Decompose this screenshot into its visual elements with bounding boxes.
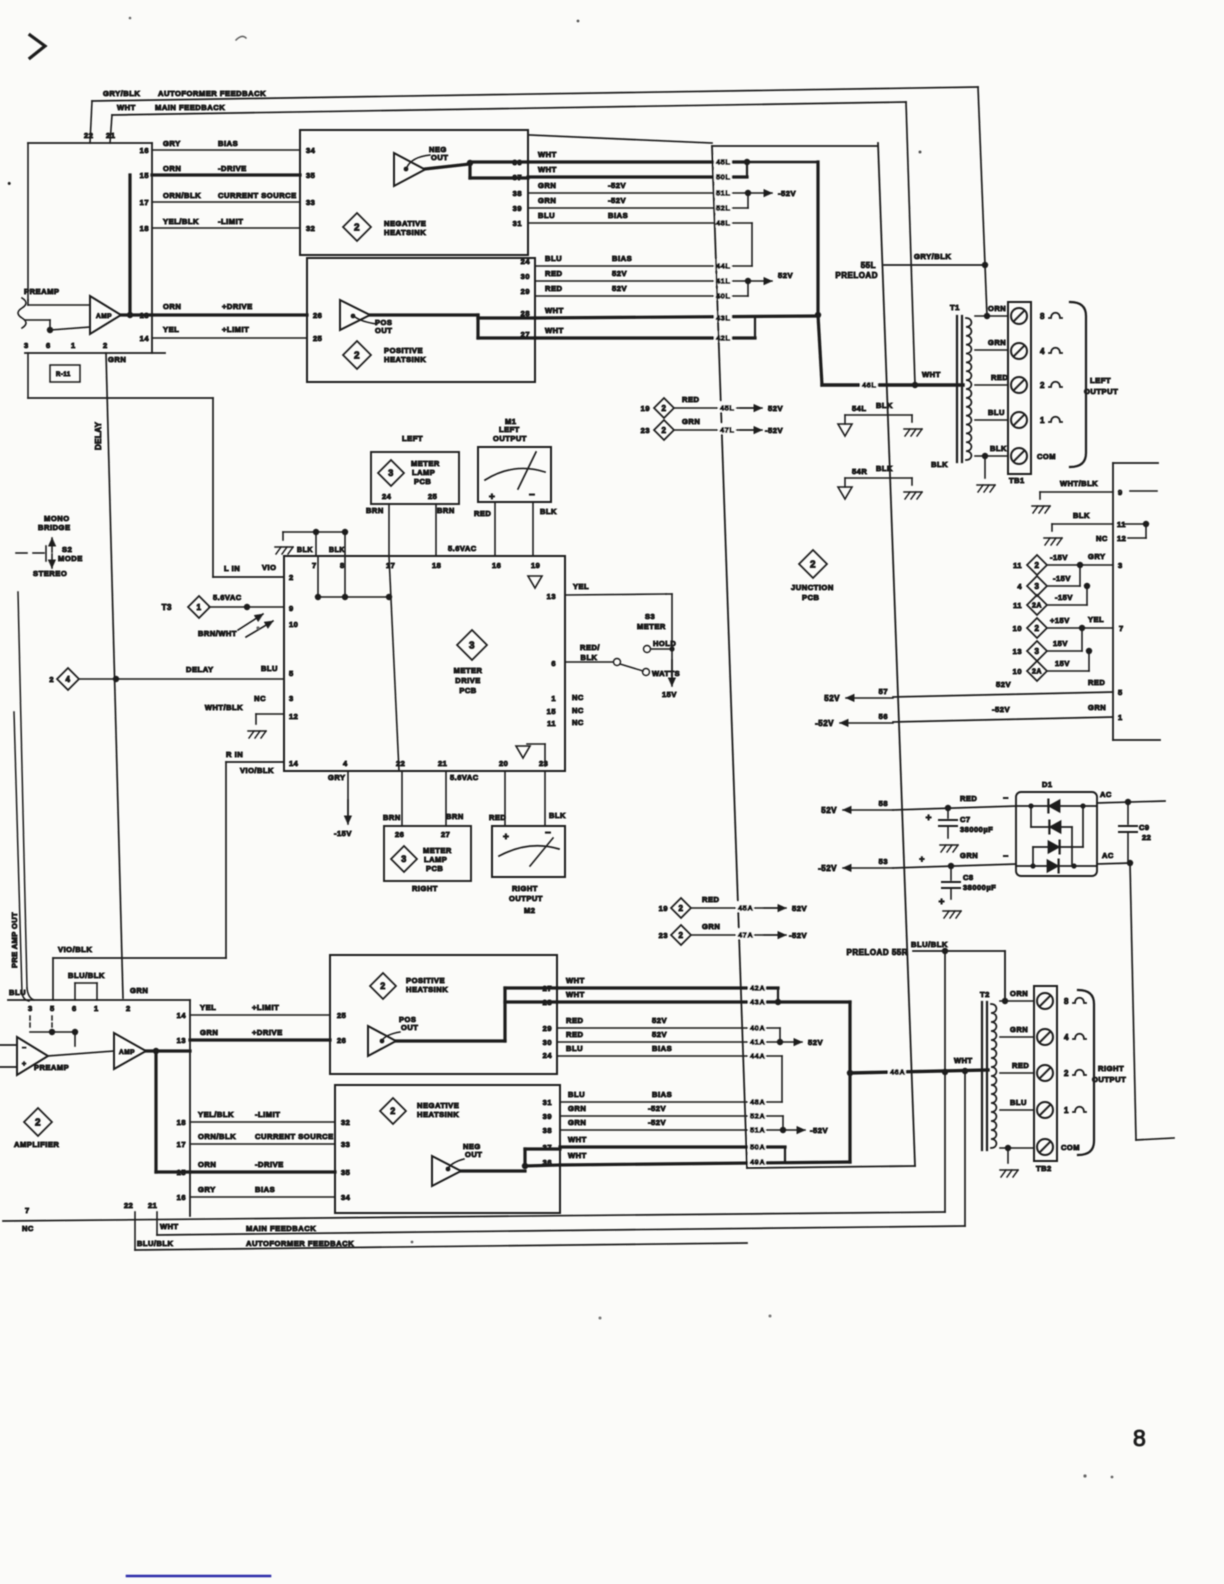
svg-text:5: 5 bbox=[50, 1004, 55, 1013]
svg-text:2: 2 bbox=[49, 675, 54, 684]
svg-text:7: 7 bbox=[25, 1206, 30, 1215]
svg-text:2: 2 bbox=[1035, 624, 1040, 633]
svg-text:BIAS: BIAS bbox=[608, 211, 628, 220]
svg-text:10: 10 bbox=[1013, 667, 1022, 676]
svg-text:52V: 52V bbox=[612, 284, 627, 293]
svg-text:19: 19 bbox=[659, 904, 668, 913]
svg-text:26: 26 bbox=[337, 1036, 346, 1045]
svg-text:ORN: ORN bbox=[198, 1160, 216, 1169]
svg-text:YEL: YEL bbox=[163, 325, 179, 334]
svg-text:MONO: MONO bbox=[44, 514, 70, 523]
svg-text:GRN: GRN bbox=[682, 417, 700, 426]
svg-text:LAMP: LAMP bbox=[412, 468, 435, 477]
svg-text:14: 14 bbox=[177, 1011, 187, 1020]
svg-text:36: 36 bbox=[543, 1158, 552, 1167]
svg-text:22: 22 bbox=[84, 131, 93, 140]
svg-text:BIAS: BIAS bbox=[652, 1044, 672, 1053]
svg-text:BRN: BRN bbox=[446, 812, 464, 821]
svg-text:BLK: BLK bbox=[540, 507, 557, 516]
svg-text:OUT: OUT bbox=[465, 1150, 482, 1159]
svg-text:2A: 2A bbox=[1032, 603, 1042, 610]
svg-text:CURRENT SOURCE: CURRENT SOURCE bbox=[255, 1132, 334, 1141]
svg-text:WHT: WHT bbox=[922, 370, 941, 379]
svg-text:38: 38 bbox=[513, 189, 522, 198]
svg-text:50L: 50L bbox=[716, 172, 730, 181]
svg-text:2: 2 bbox=[1040, 381, 1045, 390]
svg-text:2: 2 bbox=[289, 573, 294, 582]
svg-text:2: 2 bbox=[1035, 561, 1040, 570]
svg-text:+: + bbox=[939, 897, 945, 908]
svg-text:4: 4 bbox=[1064, 1033, 1069, 1042]
svg-text:NC: NC bbox=[572, 706, 584, 715]
svg-text:26: 26 bbox=[395, 830, 404, 839]
svg-text:RIGHT: RIGHT bbox=[1098, 1064, 1124, 1073]
svg-text:GRN: GRN bbox=[130, 986, 148, 995]
svg-text:RED: RED bbox=[682, 395, 700, 404]
svg-text:AUTOFORMER FEEDBACK: AUTOFORMER FEEDBACK bbox=[158, 89, 266, 98]
svg-text:NC: NC bbox=[22, 1224, 34, 1233]
svg-text:T2: T2 bbox=[980, 990, 990, 999]
svg-text:BLU: BLU bbox=[566, 1044, 583, 1053]
svg-text:RIGHT: RIGHT bbox=[412, 884, 438, 893]
svg-text:-52V: -52V bbox=[778, 189, 796, 198]
svg-text:58: 58 bbox=[879, 799, 888, 808]
svg-text:27: 27 bbox=[543, 984, 552, 993]
svg-text:L IN: L IN bbox=[224, 564, 240, 573]
svg-text:4: 4 bbox=[1040, 347, 1045, 356]
svg-text:•: • bbox=[8, 181, 11, 188]
svg-text:BLK: BLK bbox=[876, 464, 893, 473]
svg-text:6: 6 bbox=[46, 341, 51, 350]
svg-text:RED: RED bbox=[474, 509, 491, 518]
svg-text:4: 4 bbox=[1017, 582, 1022, 591]
svg-text:19: 19 bbox=[641, 404, 650, 413]
svg-text:WHT: WHT bbox=[566, 976, 585, 985]
svg-text:5: 5 bbox=[1118, 688, 1123, 697]
svg-text:52V: 52V bbox=[792, 904, 807, 913]
svg-text:BLK: BLK bbox=[931, 460, 948, 469]
svg-text:+15V: +15V bbox=[1050, 616, 1070, 625]
svg-text:GRN: GRN bbox=[702, 922, 720, 931]
svg-text:GRN: GRN bbox=[538, 196, 556, 205]
svg-text:15V: 15V bbox=[1053, 639, 1068, 648]
svg-text:AMPLIFIER: AMPLIFIER bbox=[14, 1140, 59, 1149]
svg-text:OUT: OUT bbox=[431, 153, 448, 162]
svg-text:STEREO: STEREO bbox=[33, 569, 67, 578]
svg-text:32: 32 bbox=[306, 224, 315, 233]
svg-text:HEATSINK: HEATSINK bbox=[384, 228, 426, 237]
svg-text:18: 18 bbox=[432, 561, 441, 570]
svg-text:PCB: PCB bbox=[426, 864, 443, 873]
svg-text:52L: 52L bbox=[716, 203, 730, 212]
svg-text:16: 16 bbox=[177, 1193, 186, 1202]
svg-text:2: 2 bbox=[380, 981, 386, 991]
svg-text:1: 1 bbox=[1118, 713, 1123, 722]
svg-text:T3: T3 bbox=[162, 603, 172, 612]
svg-text:4: 4 bbox=[343, 759, 348, 768]
svg-text:METER: METER bbox=[454, 666, 483, 675]
svg-text:34: 34 bbox=[306, 146, 316, 155]
svg-text:OUT: OUT bbox=[375, 326, 392, 335]
svg-text:50A: 50A bbox=[750, 1142, 765, 1151]
svg-text:35: 35 bbox=[306, 171, 315, 180]
svg-text:RED: RED bbox=[960, 794, 977, 803]
svg-text:1: 1 bbox=[1064, 1106, 1069, 1115]
svg-text:WHT: WHT bbox=[954, 1056, 973, 1065]
svg-text:25: 25 bbox=[313, 334, 322, 343]
svg-text:GRN: GRN bbox=[960, 851, 978, 860]
svg-text:51A: 51A bbox=[750, 1125, 765, 1134]
svg-text:NC: NC bbox=[1096, 534, 1108, 543]
svg-text:BLK: BLK bbox=[581, 653, 598, 662]
svg-text:4: 4 bbox=[66, 675, 71, 684]
svg-text:52V: 52V bbox=[612, 269, 627, 278]
svg-text:5.6VAC: 5.6VAC bbox=[450, 773, 479, 782]
svg-text:VIO/BLK: VIO/BLK bbox=[240, 766, 274, 775]
svg-text:3: 3 bbox=[24, 341, 29, 350]
svg-text:2: 2 bbox=[679, 904, 684, 913]
svg-text:BLU: BLU bbox=[1010, 1098, 1027, 1107]
svg-text:52V: 52V bbox=[821, 806, 837, 815]
svg-text:52A: 52A bbox=[750, 1111, 765, 1120]
svg-text:36: 36 bbox=[513, 158, 522, 167]
svg-text:37: 37 bbox=[543, 1143, 552, 1152]
svg-text:+DRIVE: +DRIVE bbox=[252, 1028, 283, 1037]
svg-text:2: 2 bbox=[810, 560, 816, 571]
svg-text:7: 7 bbox=[312, 561, 317, 570]
svg-text:+: + bbox=[22, 1061, 27, 1068]
svg-text:BLU/BLK: BLU/BLK bbox=[911, 940, 948, 949]
svg-text:14: 14 bbox=[289, 759, 299, 768]
svg-text:57: 57 bbox=[879, 687, 888, 696]
svg-text:51L: 51L bbox=[716, 188, 730, 197]
svg-text:AMP: AMP bbox=[119, 1049, 135, 1056]
svg-text:32: 32 bbox=[341, 1118, 350, 1127]
svg-text:3: 3 bbox=[401, 854, 407, 864]
svg-text:45L: 45L bbox=[716, 157, 730, 166]
svg-text:8: 8 bbox=[340, 561, 345, 570]
svg-text:PREAMP: PREAMP bbox=[34, 1063, 69, 1072]
svg-text:40L: 40L bbox=[716, 291, 730, 300]
svg-text:2: 2 bbox=[662, 404, 667, 413]
svg-text:45L: 45L bbox=[720, 403, 734, 412]
svg-text:RED: RED bbox=[1088, 678, 1105, 687]
svg-text:RED: RED bbox=[702, 895, 720, 904]
svg-text:23: 23 bbox=[539, 759, 548, 768]
svg-text:RED: RED bbox=[566, 1016, 584, 1025]
svg-text:19: 19 bbox=[531, 561, 540, 570]
svg-text:39: 39 bbox=[513, 204, 522, 213]
svg-text:52V: 52V bbox=[652, 1016, 667, 1025]
svg-text:-52V: -52V bbox=[648, 1104, 666, 1113]
svg-text:PRELOAD 55R: PRELOAD 55R bbox=[846, 948, 908, 957]
svg-text:-15V: -15V bbox=[1055, 593, 1073, 602]
svg-text:POSITIVE: POSITIVE bbox=[384, 346, 423, 355]
svg-text:29: 29 bbox=[543, 1024, 552, 1033]
svg-text:BLU: BLU bbox=[545, 254, 562, 263]
svg-text:WHT: WHT bbox=[568, 1135, 587, 1144]
svg-text:GRY: GRY bbox=[1088, 552, 1105, 561]
svg-text:8: 8 bbox=[1064, 997, 1069, 1006]
svg-text:RED: RED bbox=[991, 373, 1008, 382]
svg-text:HEATSINK: HEATSINK bbox=[406, 985, 448, 994]
svg-text:10: 10 bbox=[289, 620, 298, 629]
svg-text:17: 17 bbox=[386, 561, 395, 570]
svg-text:5.6VAC: 5.6VAC bbox=[213, 593, 242, 602]
svg-text:RED: RED bbox=[566, 1030, 584, 1039]
svg-text:-52V: -52V bbox=[992, 705, 1010, 714]
svg-text:3: 3 bbox=[289, 694, 294, 703]
svg-text:3: 3 bbox=[388, 468, 394, 478]
svg-text:1: 1 bbox=[1040, 416, 1045, 425]
svg-text:C9: C9 bbox=[1139, 823, 1150, 832]
svg-text:-LIMIT: -LIMIT bbox=[218, 217, 243, 226]
svg-text:26: 26 bbox=[313, 311, 322, 320]
svg-text:40A: 40A bbox=[750, 1023, 765, 1032]
svg-text:27: 27 bbox=[521, 330, 530, 339]
svg-text:2: 2 bbox=[35, 1118, 41, 1129]
svg-text:22: 22 bbox=[124, 1201, 133, 1210]
svg-text:GRN: GRN bbox=[988, 338, 1006, 347]
svg-text:R-11: R-11 bbox=[56, 372, 71, 378]
svg-text:28: 28 bbox=[543, 998, 552, 1007]
svg-text:PREAMP: PREAMP bbox=[24, 287, 60, 296]
svg-text:RED: RED bbox=[545, 284, 563, 293]
svg-text:46A: 46A bbox=[890, 1067, 905, 1076]
svg-text:1: 1 bbox=[197, 603, 202, 612]
svg-text:LAMP: LAMP bbox=[424, 855, 447, 864]
svg-text:WHT/BLK: WHT/BLK bbox=[1060, 479, 1098, 488]
svg-text:OUT: OUT bbox=[401, 1023, 418, 1032]
svg-text:PCB: PCB bbox=[414, 477, 431, 486]
svg-text:1: 1 bbox=[71, 341, 76, 350]
svg-text:ORN/BLK: ORN/BLK bbox=[163, 191, 201, 200]
svg-text:16: 16 bbox=[140, 146, 149, 155]
svg-text:WHT: WHT bbox=[538, 165, 557, 174]
svg-text:-15V: -15V bbox=[334, 829, 352, 838]
svg-text:49A: 49A bbox=[750, 1157, 765, 1166]
svg-text:45A: 45A bbox=[738, 903, 753, 912]
svg-text:24: 24 bbox=[543, 1051, 553, 1060]
svg-text:13: 13 bbox=[1013, 647, 1022, 656]
svg-text:15: 15 bbox=[547, 707, 556, 716]
svg-text:11: 11 bbox=[547, 719, 556, 728]
svg-text:AUTOFORMER FEEDBACK: AUTOFORMER FEEDBACK bbox=[246, 1239, 354, 1248]
svg-text:BLU: BLU bbox=[9, 988, 26, 997]
svg-text:+: + bbox=[919, 854, 925, 864]
svg-text:GRN: GRN bbox=[568, 1104, 586, 1113]
svg-text:BLK: BLK bbox=[876, 401, 893, 410]
svg-text:GRY/BLK: GRY/BLK bbox=[914, 252, 951, 261]
svg-text:1: 1 bbox=[94, 1004, 99, 1013]
svg-text:47L: 47L bbox=[720, 425, 734, 434]
svg-text:DRIVE: DRIVE bbox=[455, 676, 480, 685]
svg-text:23: 23 bbox=[641, 426, 650, 435]
svg-text:12: 12 bbox=[1117, 534, 1126, 543]
svg-text:−: − bbox=[22, 1045, 27, 1052]
svg-text:15V: 15V bbox=[662, 690, 677, 699]
svg-text:38: 38 bbox=[543, 1126, 552, 1135]
svg-text:PRE AMP OUT: PRE AMP OUT bbox=[10, 912, 19, 968]
svg-text:GRY: GRY bbox=[198, 1185, 216, 1194]
svg-text:38000µF: 38000µF bbox=[960, 825, 993, 834]
svg-text:METER: METER bbox=[411, 459, 440, 468]
svg-text:2A: 2A bbox=[1032, 669, 1042, 676]
svg-text:6: 6 bbox=[72, 1004, 77, 1013]
svg-text:GRN: GRN bbox=[200, 1028, 218, 1037]
svg-text:29: 29 bbox=[521, 287, 530, 296]
svg-text:37: 37 bbox=[513, 173, 522, 182]
svg-text:BIAS: BIAS bbox=[612, 254, 632, 263]
svg-text:5: 5 bbox=[289, 669, 294, 678]
svg-text:GRN: GRN bbox=[538, 181, 556, 190]
svg-text:PCB: PCB bbox=[459, 686, 476, 695]
svg-text:53: 53 bbox=[879, 857, 888, 866]
svg-text:44L: 44L bbox=[716, 261, 730, 270]
svg-text:RIGHT: RIGHT bbox=[512, 884, 538, 893]
svg-text:8: 8 bbox=[1040, 312, 1045, 321]
svg-text:47A: 47A bbox=[738, 930, 753, 939]
svg-text:-52V: -52V bbox=[608, 196, 626, 205]
svg-text:52V: 52V bbox=[778, 271, 793, 280]
svg-text:METER: METER bbox=[637, 622, 666, 631]
svg-text:-52V: -52V bbox=[648, 1118, 666, 1127]
svg-text:WHT: WHT bbox=[160, 1222, 179, 1231]
svg-text:MAIN FEEDBACK: MAIN FEEDBACK bbox=[246, 1224, 316, 1233]
svg-text:WATTS: WATTS bbox=[652, 669, 680, 678]
svg-text:NEGATIVE: NEGATIVE bbox=[417, 1101, 459, 1110]
svg-text:13: 13 bbox=[547, 592, 556, 601]
svg-text:-52V: -52V bbox=[818, 864, 837, 873]
svg-text:52V: 52V bbox=[768, 404, 783, 413]
svg-text:25: 25 bbox=[428, 492, 437, 501]
svg-text:31: 31 bbox=[543, 1098, 552, 1107]
svg-text:13: 13 bbox=[177, 1036, 186, 1045]
svg-text:15V: 15V bbox=[1055, 659, 1070, 668]
svg-text:BRN: BRN bbox=[383, 813, 401, 822]
svg-text:M2: M2 bbox=[524, 906, 535, 915]
svg-text:S2: S2 bbox=[62, 545, 72, 554]
svg-text:48A: 48A bbox=[750, 1097, 765, 1106]
svg-text:21: 21 bbox=[106, 131, 116, 140]
svg-text:25: 25 bbox=[337, 1011, 346, 1020]
svg-text:41L: 41L bbox=[716, 276, 730, 285]
svg-text:+LIMIT: +LIMIT bbox=[222, 325, 249, 334]
svg-text:VIO/BLK: VIO/BLK bbox=[58, 945, 92, 954]
svg-text:21: 21 bbox=[438, 759, 447, 768]
svg-text:2: 2 bbox=[662, 426, 667, 435]
svg-text:WHT/BLK: WHT/BLK bbox=[205, 703, 243, 712]
svg-text:BRN/WHT: BRN/WHT bbox=[198, 629, 237, 638]
svg-text:11: 11 bbox=[1013, 601, 1022, 610]
svg-text:-52V: -52V bbox=[789, 931, 807, 940]
svg-text:ORN/BLK: ORN/BLK bbox=[198, 1132, 236, 1141]
svg-text:52V: 52V bbox=[808, 1038, 823, 1047]
svg-text:BLK: BLK bbox=[1073, 511, 1090, 520]
svg-text:PRELOAD: PRELOAD bbox=[835, 271, 878, 280]
svg-text:22: 22 bbox=[396, 759, 405, 768]
svg-text:17: 17 bbox=[177, 1140, 186, 1149]
svg-text:TB1: TB1 bbox=[1009, 476, 1025, 485]
svg-text:YEL/BLK: YEL/BLK bbox=[198, 1110, 234, 1119]
svg-text:-LIMIT: -LIMIT bbox=[255, 1110, 280, 1119]
svg-text:23: 23 bbox=[659, 931, 668, 940]
svg-text:RED: RED bbox=[489, 813, 506, 822]
svg-text:48L: 48L bbox=[716, 218, 730, 227]
svg-text:C8: C8 bbox=[963, 873, 974, 882]
svg-text:-DRIVE: -DRIVE bbox=[255, 1160, 284, 1169]
svg-text:−: − bbox=[545, 828, 551, 839]
svg-text:41A: 41A bbox=[750, 1037, 765, 1046]
svg-text:-52V: -52V bbox=[765, 426, 783, 435]
svg-text:2: 2 bbox=[1064, 1069, 1069, 1078]
svg-text:44A: 44A bbox=[750, 1051, 765, 1060]
svg-text:42A: 42A bbox=[750, 983, 765, 992]
svg-text:20: 20 bbox=[499, 759, 508, 768]
svg-text:GRN: GRN bbox=[1010, 1025, 1028, 1034]
svg-text:DELAY: DELAY bbox=[94, 421, 103, 450]
svg-text:BLU/BLK: BLU/BLK bbox=[68, 971, 105, 980]
svg-text:30: 30 bbox=[521, 272, 530, 281]
svg-text:LEFT: LEFT bbox=[402, 434, 423, 443]
svg-text:BLU: BLU bbox=[538, 211, 555, 220]
svg-text:15: 15 bbox=[140, 171, 149, 180]
svg-text:55L: 55L bbox=[861, 261, 876, 270]
svg-text:6: 6 bbox=[551, 659, 556, 668]
svg-text:17: 17 bbox=[140, 198, 149, 207]
svg-text:18: 18 bbox=[177, 1118, 186, 1127]
svg-text:38000µF: 38000µF bbox=[963, 883, 996, 892]
svg-text:R IN: R IN bbox=[226, 750, 243, 759]
svg-text:+LIMIT: +LIMIT bbox=[252, 1003, 279, 1012]
svg-text:2: 2 bbox=[354, 351, 360, 362]
svg-text:3: 3 bbox=[469, 641, 475, 652]
svg-text:RED/: RED/ bbox=[580, 643, 600, 652]
svg-text:34: 34 bbox=[341, 1193, 351, 1202]
svg-text:YEL: YEL bbox=[200, 1003, 216, 1012]
svg-text:GRY/BLK: GRY/BLK bbox=[103, 89, 140, 98]
svg-text:WHT: WHT bbox=[117, 103, 136, 112]
svg-text:2: 2 bbox=[126, 1004, 131, 1013]
svg-text:WHT: WHT bbox=[566, 990, 585, 999]
svg-text:DELAY: DELAY bbox=[186, 665, 214, 674]
svg-text:RED: RED bbox=[545, 269, 563, 278]
svg-text:43A: 43A bbox=[750, 997, 765, 1006]
svg-text:12: 12 bbox=[289, 712, 298, 721]
svg-text:GRY: GRY bbox=[163, 139, 181, 148]
svg-text:54L: 54L bbox=[852, 404, 866, 413]
svg-text:46L: 46L bbox=[862, 380, 876, 389]
svg-text:LEFT: LEFT bbox=[499, 425, 520, 434]
svg-text:+: + bbox=[503, 832, 509, 843]
svg-text:39: 39 bbox=[543, 1112, 552, 1121]
svg-text:-15V: -15V bbox=[1050, 553, 1068, 562]
svg-text:BLK: BLK bbox=[329, 547, 345, 554]
svg-text:YEL/BLK: YEL/BLK bbox=[163, 217, 199, 226]
svg-text:METER: METER bbox=[423, 846, 452, 855]
svg-text:-52V: -52V bbox=[810, 1126, 828, 1135]
svg-text:9: 9 bbox=[289, 604, 294, 613]
svg-text:3: 3 bbox=[28, 1004, 33, 1013]
svg-text:BLU: BLU bbox=[988, 408, 1005, 417]
svg-text:24: 24 bbox=[521, 257, 531, 266]
svg-text:ORN: ORN bbox=[1010, 989, 1028, 998]
svg-text:NC: NC bbox=[254, 694, 266, 703]
svg-text:NC: NC bbox=[572, 718, 584, 727]
svg-text:7: 7 bbox=[1119, 624, 1124, 633]
svg-text:-52V: -52V bbox=[815, 719, 834, 728]
svg-text:11: 11 bbox=[1013, 561, 1022, 570]
